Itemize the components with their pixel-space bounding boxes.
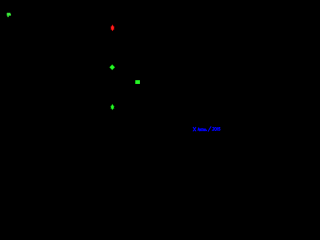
blue signature: year digit 5 [219, 128, 220, 131]
red asterisk sprite (top-center) [110, 24, 114, 31]
green diamond sprite (middle-center) [109, 64, 115, 70]
green asterisk sprite (bottom-center) [110, 104, 114, 111]
blue signature: year digit 1 [217, 128, 219, 131]
blue signature: slash [208, 127, 211, 132]
green rectangle sprite (middle-right) [135, 80, 140, 84]
blue signature: year digit 2 [213, 127, 215, 130]
green bubble sprite (top-left) [7, 13, 11, 17]
blue signature: cursive word [198, 128, 207, 131]
blue signature: letter X [193, 127, 196, 131]
blue signature: word underline tail [199, 130, 206, 132]
blue signature: year digit 0 [215, 128, 217, 131]
